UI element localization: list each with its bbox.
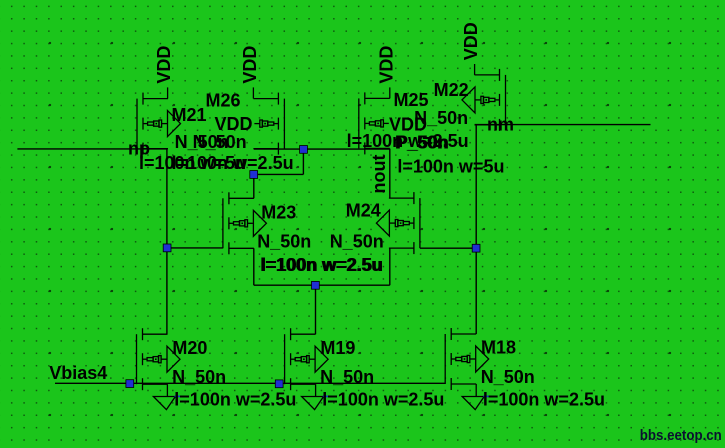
svg-text:VDD: VDD bbox=[215, 114, 253, 134]
junction nout jog junction bbox=[300, 146, 308, 154]
svg-text:N_50n: N_50n bbox=[330, 232, 384, 252]
svg-text:VDD: VDD bbox=[240, 46, 260, 84]
wire nout vertical (M25.s-M24.d) bbox=[389, 149, 391, 199]
svg-text:l=100n w=2.5u: l=100n w=2.5u bbox=[261, 255, 383, 275]
svg-text:l=100n w=2.5u: l=100n w=2.5u bbox=[172, 153, 294, 173]
wire M23 drain riser bbox=[253, 174, 255, 198]
wire net B to M24 gate bbox=[420, 247, 476, 249]
svg-text:M21: M21 bbox=[172, 105, 207, 125]
svg-text:nm: nm bbox=[487, 115, 514, 135]
transistor M23 bbox=[223, 192, 267, 254]
svg-text:VDD: VDD bbox=[154, 46, 174, 84]
svg-text:N_50n: N_50n bbox=[481, 367, 535, 387]
power symbol VDD at M25 bbox=[376, 46, 396, 99]
ground symbol under M20 bbox=[153, 384, 175, 409]
transistor M20 bbox=[137, 328, 181, 390]
svg-text:l=100n w=2.5u: l=100n w=2.5u bbox=[322, 390, 444, 410]
junction net A / M23 gate junction bbox=[163, 244, 171, 252]
transistor M24 bbox=[376, 192, 420, 254]
svg-text:M19: M19 bbox=[320, 338, 355, 358]
junction M23 drain junction bbox=[250, 171, 258, 179]
junction tail junction bbox=[312, 281, 320, 289]
svg-text:l=100n w=5u: l=100n w=5u bbox=[397, 156, 504, 176]
wire net A to M23 gate bbox=[167, 247, 223, 249]
power symbol VDD at M21 bbox=[154, 46, 174, 99]
junction Vbias4 junction at M19 bbox=[275, 380, 283, 388]
svg-text:M24: M24 bbox=[346, 201, 381, 221]
wire jog horizontal to M23 drain bbox=[254, 173, 304, 175]
svg-text:M22: M22 bbox=[434, 80, 469, 100]
transistor M21 bbox=[137, 93, 181, 155]
svg-text:l=100n w=2.5u: l=100n w=2.5u bbox=[483, 390, 605, 410]
power symbol VDD at M22 bbox=[461, 22, 481, 75]
wire tail U right (M24 source down) bbox=[389, 248, 391, 285]
svg-text:VDD: VDD bbox=[461, 22, 481, 60]
svg-text:M18: M18 bbox=[481, 338, 516, 358]
svg-text:M26: M26 bbox=[206, 90, 241, 110]
transistor M25 bbox=[359, 92, 390, 154]
svg-text:l=100n w=2.5u: l=100n w=2.5u bbox=[174, 390, 296, 410]
junction net B / M24 gate junction bbox=[472, 244, 480, 252]
svg-text:M20: M20 bbox=[172, 338, 207, 358]
gnd net stub (blue) at M19 bbox=[323, 395, 331, 397]
svg-text:VDD: VDD bbox=[376, 46, 396, 84]
wire tail U horizontal bbox=[254, 284, 390, 286]
wire net A: M21 source to M20 drain (left column) bbox=[166, 149, 168, 334]
svg-text:M23: M23 bbox=[261, 203, 296, 223]
svg-text:N_50n: N_50n bbox=[172, 367, 226, 387]
svg-text:N_50n: N_50n bbox=[193, 132, 247, 152]
ground symbol under M19 bbox=[302, 384, 324, 409]
transistor M19 bbox=[285, 328, 329, 390]
wire np input bbox=[17, 148, 167, 150]
wire net B: M22 source to M18 drain (right column) bbox=[475, 125, 477, 334]
wire tail tap to M19 drain bbox=[315, 285, 317, 334]
power symbol VDD at M26 bbox=[240, 46, 260, 99]
wire jog down from nout bbox=[302, 149, 304, 174]
svg-text:N_50n: N_50n bbox=[257, 232, 311, 252]
wire nm output bbox=[475, 124, 651, 126]
junction Vbias4 junction at M20 bbox=[126, 380, 134, 388]
wire nout horizontal (M26.s-M25.s) bbox=[254, 148, 390, 150]
transistor M18 bbox=[445, 328, 489, 390]
svg-text:Vbias4: Vbias4 bbox=[49, 363, 107, 383]
svg-text:bbs.eetop.cn: bbs.eetop.cn bbox=[640, 427, 722, 444]
gnd net stub (blue) at M20 bbox=[175, 395, 183, 397]
svg-text:nout: nout bbox=[369, 155, 389, 194]
gnd net stub (blue) at M18 bbox=[483, 395, 491, 397]
wire Vbias4 bus bbox=[55, 382, 445, 384]
svg-text:np: np bbox=[128, 138, 150, 158]
svg-text:VDD: VDD bbox=[389, 114, 427, 134]
svg-text:N_50n: N_50n bbox=[320, 367, 374, 387]
ground symbol under M18 bbox=[462, 384, 484, 410]
wire tail U left (M23 source down) bbox=[253, 248, 255, 285]
transistor M26 bbox=[253, 93, 284, 155]
transistor M22 bbox=[462, 69, 506, 131]
